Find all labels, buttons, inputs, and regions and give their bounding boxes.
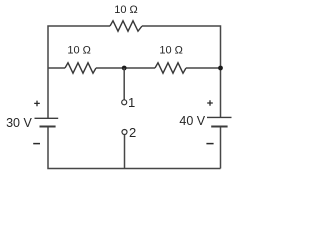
svg-text:2: 2 [129,125,136,140]
battery V1 30V: short negative plate [40,126,56,128]
wire: top rail left segment + left rail upper [48,26,110,118]
junction dot at node 1 tap [122,66,127,71]
wire: top rail right segment + right rail upper [142,26,221,117]
svg-text:10 Ω: 10 Ω [114,4,138,16]
svg-text:30 V: 30 V [6,116,32,130]
svg-text:10 Ω: 10 Ω [159,44,183,56]
plus sign (right battery) [207,100,213,106]
wire: node 2 stub [124,135,126,169]
minus sign (left battery) [33,143,40,145]
resistor R_top 10 ohm (zigzag) [110,21,142,31]
resistor R_left 10 ohm (zigzag) [65,63,96,73]
wire: middle rail right resistor to right rail [186,67,221,69]
resistor R_right 10 ohm (zigzag) [155,63,186,73]
minus sign (right battery) [206,143,213,145]
junction dot on right rail [218,66,223,71]
battery V2 40V: long positive plate [207,116,232,118]
wire: left rail lower segment + bottom rail [48,127,221,168]
wire: middle rail between resistors [96,67,155,69]
battery V2 40V: short negative plate [211,126,227,128]
svg-text:40 V: 40 V [179,114,205,128]
node 1 terminal (open circle) [122,100,127,105]
wire: middle rail, left rail to left resistor [48,67,65,69]
plus sign (left battery) [34,101,40,107]
svg-text:10 Ω: 10 Ω [67,44,91,56]
battery V1 30V: long positive plate [35,117,59,119]
svg-text:1: 1 [128,95,135,110]
node 2 terminal (open circle) [122,130,127,135]
wire: node 1 stub [123,68,125,100]
wire: right rail lower segment [220,127,222,168]
